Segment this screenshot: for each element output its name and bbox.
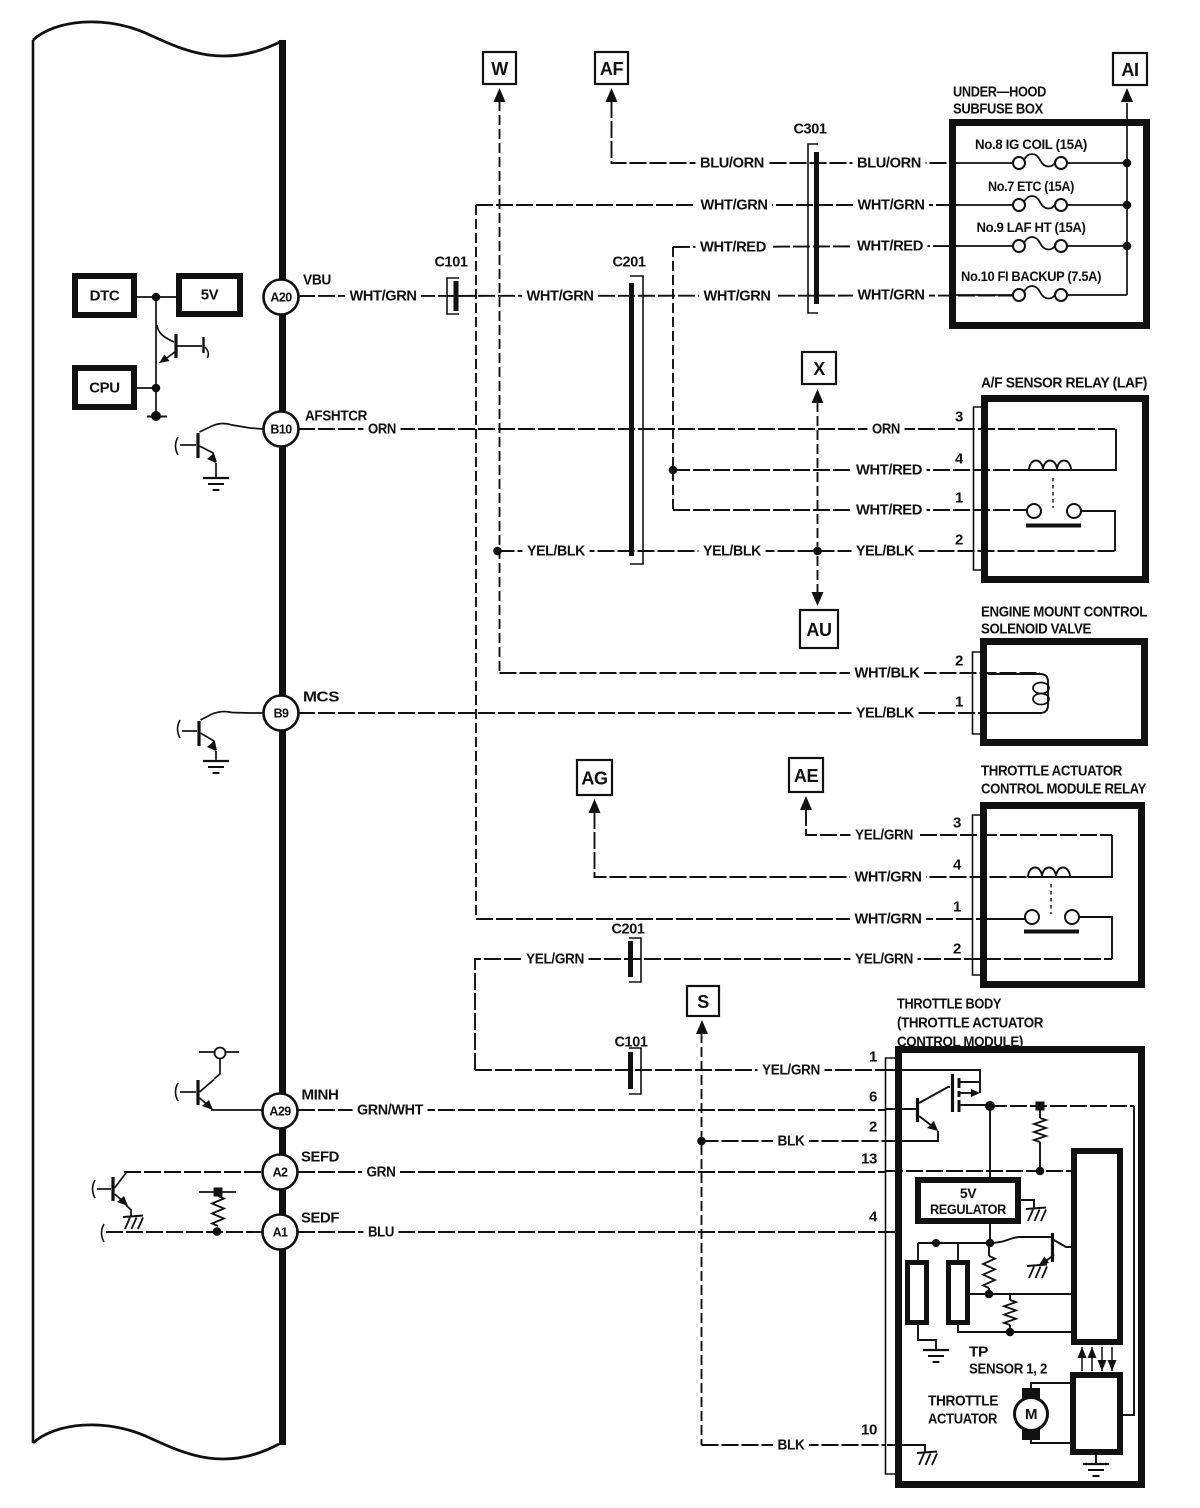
wire Q2 collector to B10 [200,423,264,432]
ECM left border line [32,40,35,1443]
transistor Q2 (AFSHTCR driver) [176,437,179,455]
terminal A29 [263,1094,298,1129]
node end tick [147,416,167,418]
arrow to S [696,1020,708,1034]
svg-text:AFSHTCR: AFSHTCR [305,408,367,425]
svg-text:YEL/GRN: YEL/GRN [526,951,584,968]
svg-text:1: 1 [869,1049,877,1066]
pin bracket throttle body [886,1058,896,1474]
svg-text:YEL/BLK: YEL/BLK [856,705,915,722]
svg-text:BLU/ORN: BLU/ORN [857,155,921,172]
svg-text:AE: AE [794,766,819,786]
node bus junction 3 [1123,242,1132,251]
label ORN wire [868,420,905,438]
svg-text:4: 4 [869,1209,878,1226]
arrow to AE [800,796,812,810]
wire YEL/GRN row to throttle pin1 [475,1069,886,1071]
svg-text:No.9 LAF HT (15A): No.9 LAF HT (15A) [977,219,1086,235]
svg-text:WHT/GRN: WHT/GRN [350,288,417,305]
svg-text:ORN: ORN [368,421,396,438]
svg-text:4: 4 [955,451,964,468]
node WHT/RED junction [669,466,678,475]
wire WHT/GRN row (fuse No.7) [476,204,958,206]
svg-text:1: 1 [953,899,961,916]
svg-text:BLK: BLK [778,1437,806,1454]
node 5V rail [986,1239,995,1248]
wire contact to pin2 [1079,917,1112,959]
box engine mount solenoid valve [984,642,1145,743]
label WHT/GRN wire [345,287,421,305]
ECM connector bus (thick vertical) [279,40,286,1445]
label YEL/GRN wire [522,950,589,968]
node resistor top (square) [1036,1102,1045,1111]
svg-text:No.7 ETC (15A): No.7 ETC (15A) [988,178,1074,194]
transistor Q1 (DTC/5V driver) [157,325,174,342]
route box AE [789,758,823,792]
label BLU/ORN wire [853,154,926,172]
svg-text:AU: AU [806,620,831,640]
pull-up with open contact (A29) [199,1051,239,1053]
label WHT/GRN wire [696,196,772,214]
svg-text:SUBFUSE BOX: SUBFUSE BOX [953,101,1043,118]
terminal A2 [263,1155,298,1190]
node MOSFET source [985,1101,995,1111]
box 5V regulator [918,1180,1018,1221]
wire WHT/RED to relay pin4 [673,469,1029,471]
svg-text:ENGINE MOUNT CONTROL: ENGINE MOUNT CONTROL [981,604,1147,621]
label YEL/BLK wire [852,704,919,722]
svg-text:AF: AF [600,59,624,79]
label GRN/WHT wire [353,1101,428,1119]
relay contact bar [1026,524,1081,528]
wire pin10 to ground [887,1445,925,1452]
svg-text:WHT/GRN: WHT/GRN [858,197,925,214]
wire TP1 to ground [918,1325,936,1349]
svg-text:YEL/GRN: YEL/GRN [855,951,913,968]
svg-text:C301: C301 [794,121,827,138]
label BLU wire [364,1223,399,1241]
svg-text:THROTTLE ACTUATOR: THROTTLE ACTUATOR [981,763,1122,780]
svg-text:SEFD: SEFD [301,1149,340,1166]
svg-text:WHT/GRN: WHT/GRN [855,911,922,928]
svg-text:SENSOR 1, 2: SENSOR 1, 2 [969,1361,1047,1378]
svg-text:A/F SENSOR RELAY (LAF): A/F SENSOR RELAY (LAF) [981,375,1147,392]
relay2 coil [1028,835,1112,877]
node A1 junction [213,1227,222,1236]
svg-text:M: M [1025,1406,1037,1423]
wire WHT/GRN from AG to relay2 pin4 [595,812,1029,877]
wire BLU/ORN row from AF [612,101,959,163]
svg-text:WHT/RED: WHT/RED [700,239,767,256]
wire rail down right side [1123,1106,1134,1415]
svg-text:YEL/BLK: YEL/BLK [703,543,762,560]
svg-text:REGULATOR: REGULATOR [930,1201,1006,1217]
motor M (throttle actuator) [1015,1398,1048,1431]
svg-text:No.10 FI BACKUP (7.5A): No.10 FI BACKUP (7.5A) [961,268,1101,284]
box CPU [75,368,134,407]
svg-text:THROTTLE: THROTTLE [928,1393,998,1410]
wire WHT/GRN row to relay2 pin1 [476,918,1025,920]
label WHT/RED wire [852,501,927,519]
label YEL/GRN wire [851,826,918,844]
svg-text:ORN: ORN [872,421,900,438]
label WHT/GRN wire [699,287,775,305]
svg-text:1: 1 [955,490,963,507]
svg-text:CPU: CPU [89,380,119,397]
fuse output bus [1126,103,1128,295]
svg-text:MINH: MINH [302,1087,339,1104]
wire MINH GRN/WHT row [298,1109,886,1111]
svg-text:W: W [491,59,508,79]
wire YEL/BLK row to relay pin2 [498,550,1116,552]
node CPU junction [152,384,161,393]
relay2 contacts [1025,910,1039,924]
svg-text:WHT/RED: WHT/RED [857,238,924,255]
wire vertical from S [701,1033,703,1445]
connector C101 (lower) [628,1052,633,1089]
svg-text:BLK: BLK [778,1133,806,1150]
wire DTC-5V [137,296,176,298]
svg-text:THROTTLE BODY: THROTTLE BODY [897,996,1001,1013]
label YEL/BLK wire [852,542,919,560]
connector C101 (top) [447,278,459,314]
arrow to AG [589,799,601,813]
label YEL/BLK wire [523,542,590,560]
svg-text:BLU: BLU [368,1224,394,1241]
wire YEL/GRN from AE to relay2 pin3 [806,809,1112,835]
wire SEFD to A2 [124,1171,262,1173]
svg-text:5V: 5V [201,287,219,304]
svg-text:YEL/BLK: YEL/BLK [527,543,586,560]
svg-text:WHT/GRN: WHT/GRN [704,288,771,305]
label BLK wire [773,1132,809,1150]
node TP rail junction [932,1239,940,1247]
svg-text:C201: C201 [612,921,645,938]
transistor Q5 (SEFD) [93,1180,96,1198]
connector C301 [808,144,818,313]
wire pin1 to MOSFET drain [886,1070,980,1093]
box under-hood subfuse box [953,123,1147,326]
svg-text:13: 13 [861,1151,877,1168]
wire SEDF to A1 [106,1231,262,1233]
wire pin1 to contact [987,918,1025,920]
node bus junction 2 [1123,201,1132,210]
transistor Q4 (MINH driver) [176,1083,179,1101]
svg-text:4: 4 [953,857,962,874]
svg-text:YEL/BLK: YEL/BLK [856,543,915,560]
wire MCS YEL/BLK row (B9 to solenoid pin1) [298,712,1040,714]
node bus junction 1 [1123,159,1132,168]
wire to regulator [989,1106,991,1177]
pin bracket A/F relay [974,407,982,570]
solenoid coil [988,674,1048,713]
ECM torn-edge top wave [33,22,282,56]
transistor Q7 (pin6 driver) [886,1108,916,1110]
label WHT/GRN wire [522,287,598,305]
svg-text:2: 2 [869,1119,877,1136]
svg-text:B10: B10 [270,423,292,437]
arrow to AU [812,592,824,606]
wire contact to pin2 [1081,511,1115,551]
node wiper junction [985,1290,994,1299]
arrow to W [494,88,506,102]
svg-text:BLU/ORN: BLU/ORN [700,155,764,172]
box throttle actuator control module relay [984,806,1142,985]
box 5V [179,276,240,314]
relay2 link dashed [1050,884,1052,914]
MOSFET Q6 [951,1074,954,1112]
svg-text:WHT/GRN: WHT/GRN [701,197,768,214]
label YEL/GRN wire [851,950,918,968]
wire YEL/GRN row to relay2 pin2 [475,959,1112,1070]
pin bracket solenoid [973,652,981,734]
wire Q3 collector to B9 [201,712,264,720]
connector C201 (long) [629,283,634,556]
wire ORN row (B10 to relay pin3) [298,428,1116,430]
route box W [483,52,516,84]
svg-text:VBU: VBU [303,272,331,289]
label GRN wire [362,1163,400,1181]
terminal A20 [264,280,299,315]
wire regulator ground lead [1021,1200,1034,1208]
relay coil (A/F) [1029,429,1116,470]
svg-text:1: 1 [955,694,963,711]
svg-text:WHT/BLK: WHT/BLK [855,665,921,682]
svg-text:WHT/RED: WHT/RED [856,462,923,479]
transistor Q3 (MCS driver) [178,720,181,738]
svg-text:2: 2 [953,941,961,958]
svg-text:6: 6 [869,1089,877,1106]
svg-text:TP: TP [969,1344,988,1361]
arrows between driver blocks [1081,1347,1083,1371]
wire 5V rail to TP sensors [918,1242,990,1244]
ground (SEFD transistor) [123,1216,143,1218]
svg-text:CONTROL MODULE RELAY: CONTROL MODULE RELAY [981,781,1146,798]
svg-text:S: S [697,992,709,1012]
route box AU [800,610,838,648]
wire SEDF BLU row [298,1231,902,1233]
svg-text:GRN: GRN [367,1164,396,1181]
wire vertical X-AU [817,402,819,592]
node junction YEL/BLK at W line [493,547,502,556]
svg-text:No.8 IG COIL (15A): No.8 IG COIL (15A) [975,136,1087,152]
terminal A1 [263,1215,298,1250]
wire CPU to vertical [137,387,156,389]
wire BLK row to throttle pin2 [702,1140,887,1142]
svg-text:WHT/GRN: WHT/GRN [527,288,594,305]
relay contacts (A/F) [1027,504,1041,518]
wire pin13 into driver block [886,1170,1071,1172]
box TP sensor 2 [949,1263,968,1323]
svg-text:WHT/RED: WHT/RED [856,502,923,519]
route box AG [577,760,612,795]
wire BLK row to throttle pin10 [702,1444,887,1446]
svg-text:A29: A29 [269,1105,291,1119]
svg-text:MCS: MCS [303,689,339,706]
route box AF [595,52,628,84]
pull-up resistor (A1) [199,1191,236,1193]
svg-text:C101: C101 [435,254,468,271]
label WHT/GRN wire [853,286,929,304]
connector C201 (lower) [628,941,633,977]
wire motor bottom to block [1031,1440,1070,1443]
svg-text:A2: A2 [273,1166,288,1180]
route box AI [1113,53,1147,85]
svg-text:WHT/GRN: WHT/GRN [855,869,922,886]
arrow to AI [1121,88,1133,102]
svg-text:A20: A20 [270,291,292,305]
ground (B10 transistor) [203,477,229,479]
node resistor3 bottom [1006,1328,1015,1337]
terminal B9 [264,696,299,731]
resistor R3 [1004,1300,1016,1325]
route box X [802,352,836,384]
label WHT/RED wire [852,461,927,479]
wire source rail [990,1105,1134,1107]
wire WHT/RED to relay pin1 [673,509,1027,511]
relay2 contact bar [1024,930,1079,934]
ECM torn-edge bottom wave [33,1425,279,1459]
wire WHT/BLK row to solenoid pin2 [500,672,1041,674]
ground (TP sensor) [923,1349,949,1351]
label WHT/GRN wire [850,868,926,886]
resistor R2 [983,1256,995,1288]
relay link dashed [1052,478,1054,508]
svg-text:2: 2 [955,653,963,670]
ground (B9 transistor) [203,760,229,762]
svg-text:3: 3 [953,815,961,832]
svg-text:SEDF: SEDF [301,1210,339,1227]
wire vertical from DTC junction [155,297,157,415]
svg-text:3: 3 [955,409,963,426]
wire vertical x=673 WHT/RED [672,247,674,510]
svg-text:UNDER—HOOD: UNDER—HOOD [953,84,1046,101]
label WHT/BLK wire [850,664,924,682]
label WHT/GRN wire [853,196,929,214]
svg-text:DTC: DTC [90,288,120,305]
svg-text:5V: 5V [960,1185,977,1201]
label WHT/RED wire [696,238,771,256]
svg-text:X: X [813,359,825,379]
wire vertical from W [499,101,501,673]
box TP sensor 1 [908,1263,927,1323]
ground (regulator) [1026,1208,1046,1210]
box throttle body [899,1050,1142,1485]
wire TP wiper rail [970,1293,1071,1295]
wire vertical x=476 [475,205,477,919]
label BLK wire [773,1436,809,1454]
label WHT/GRN wire [850,910,926,928]
label BLU/ORN wire [696,154,769,172]
svg-text:B9: B9 [274,707,289,721]
ground (output block) [1083,1463,1109,1465]
node DTC/5V junction [152,293,161,302]
node X-AU junction on YEL/BLK [813,547,822,556]
box actuator output block [1073,1375,1120,1452]
route box S [687,986,719,1016]
svg-text:GRN/WHT: GRN/WHT [357,1102,423,1119]
box motor driver block [1074,1151,1120,1342]
box A/F sensor relay [985,399,1146,580]
wire VBU WHT/GRN row [298,295,1013,298]
svg-text:YEL/GRN: YEL/GRN [855,827,913,844]
wire block to ground [1095,1455,1097,1463]
svg-text:ACTUATOR: ACTUATOR [928,1411,997,1428]
label WHT/RED wire [853,237,928,255]
label YEL/GRN wire [758,1061,825,1079]
box DTC [75,276,134,315]
svg-text:WHT/GRN: WHT/GRN [858,287,925,304]
transistor Q8 (driver bias) [990,1237,1051,1243]
wire SEFD GRN row [298,1171,886,1173]
wire motor top to block [1031,1383,1070,1388]
pin bracket relay2 [973,815,981,975]
svg-text:SOLENOID VALVE: SOLENOID VALVE [981,621,1091,638]
node resistor top (square) [214,1188,223,1197]
ground (Q8) [1027,1265,1047,1267]
ground (pin10) [917,1452,937,1454]
arrow to AF [606,88,618,102]
node BLK junction [697,1137,706,1146]
node on pin13 wire [1036,1167,1045,1176]
resistor R1 [1034,1118,1046,1142]
svg-text:C101: C101 [615,1034,648,1051]
wire regulator bottom [989,1224,991,1243]
wire TP2 bottom to driver block [958,1325,1071,1332]
svg-text:AI: AI [1121,60,1138,80]
svg-text:10: 10 [861,1422,877,1439]
svg-text:C201: C201 [613,254,646,271]
label YEL/BLK wire [699,542,766,560]
wire WHT/RED row (fuse No.9) [673,246,958,247]
arrow to X [812,389,824,403]
svg-text:A1: A1 [273,1226,288,1240]
svg-text:2: 2 [955,532,963,549]
svg-text:AG: AG [581,769,607,789]
label ORN wire [364,420,401,438]
terminal B10 [264,412,299,447]
svg-text:YEL/GRN: YEL/GRN [762,1062,820,1079]
wire SEDF stub hook [102,1224,105,1242]
svg-text:(THROTTLE ACTUATOR: (THROTTLE ACTUATOR [897,1015,1043,1032]
